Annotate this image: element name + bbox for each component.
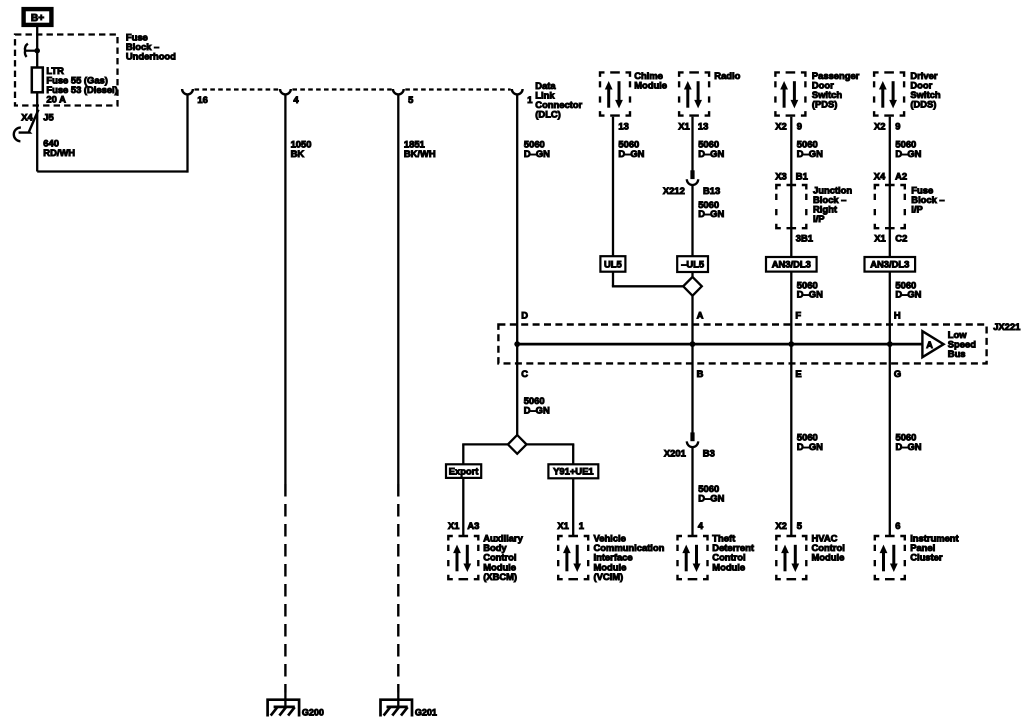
svg-text:H: H — [894, 310, 901, 321]
svg-text:4: 4 — [293, 94, 299, 105]
svg-text:B+: B+ — [31, 13, 44, 24]
svg-text:(PDS): (PDS) — [812, 99, 838, 110]
svg-text:X1: X1 — [557, 520, 568, 531]
option box Export — [446, 464, 481, 478]
module HVAC control module — [776, 536, 806, 579]
node F label — [795, 310, 801, 321]
svg-text:D–GN: D–GN — [698, 208, 724, 219]
wire label 5060 D-GN (DDS) — [895, 139, 921, 159]
svg-text:X1: X1 — [678, 120, 689, 131]
svg-text:(DDS): (DDS) — [910, 99, 936, 110]
svg-text:Underhood: Underhood — [126, 51, 176, 62]
low speed bus line — [517, 343, 922, 346]
bus driver triangle A — [922, 331, 943, 357]
svg-text:5: 5 — [408, 94, 413, 105]
fuse block I/P dashed box — [875, 185, 905, 228]
option box -UL5 — [677, 256, 708, 272]
wire fuse to X4 connector — [36, 92, 38, 171]
data link connector label — [535, 80, 582, 120]
svg-text:D: D — [521, 310, 528, 321]
wire AN3/DL3 right to bus node H — [889, 272, 891, 345]
label HVAC control module — [812, 533, 845, 563]
fuse block underhood label — [126, 31, 176, 61]
module chime module — [600, 72, 630, 115]
label JX221 — [993, 321, 1020, 332]
svg-text:1: 1 — [579, 520, 584, 531]
splice diamond (Export/Y91) — [508, 435, 527, 454]
junction dot node A — [690, 341, 696, 347]
node H label — [894, 310, 901, 321]
module instrument panel cluster — [875, 536, 905, 579]
svg-text:Y91+UE1: Y91+UE1 — [553, 466, 593, 477]
svg-text:(VCIM): (VCIM) — [594, 571, 624, 582]
svg-text:Cluster: Cluster — [910, 552, 943, 563]
wire B+ to fuse — [36, 25, 38, 68]
svg-text:AN3/DL3: AN3/DL3 — [772, 259, 811, 270]
inline connector X212 B13 — [687, 170, 698, 185]
pin label of instrument panel cluster — [895, 520, 900, 531]
label radio — [714, 70, 740, 81]
pin X3 B1 — [775, 171, 807, 182]
svg-text:X4: X4 — [21, 112, 33, 123]
node G label — [894, 368, 901, 379]
svg-text:X2: X2 — [775, 520, 786, 531]
svg-text:G: G — [894, 368, 901, 379]
wire X201 to theft deterrent module — [691, 447, 693, 536]
svg-text:(DLC): (DLC) — [535, 109, 561, 120]
node A label — [697, 310, 704, 321]
svg-text:13: 13 — [698, 120, 708, 131]
svg-text:Module: Module — [634, 80, 667, 91]
wire DDS to fuse block I/P — [889, 117, 891, 257]
svg-text:Export: Export — [449, 466, 479, 477]
svg-text:D–GN: D–GN — [698, 148, 724, 159]
svg-text:B3: B3 — [703, 448, 715, 459]
junction dot node F — [788, 341, 794, 347]
wire X212 to -UL5 — [691, 185, 693, 256]
pin label of theft deterrent control module — [698, 520, 704, 531]
junction dot on B+ feed — [34, 48, 40, 54]
svg-text:Module: Module — [812, 552, 845, 563]
svg-text:JX221: JX221 — [993, 321, 1020, 332]
label driver door switch DDS — [910, 70, 940, 110]
DLC cavity 4 — [280, 89, 299, 105]
svg-text:G201: G201 — [415, 707, 437, 717]
svg-text:1: 1 — [527, 94, 532, 105]
wire label 5060 D-GN (PDS) — [797, 139, 823, 159]
pin X4 A2 — [874, 171, 907, 182]
wire 5060 D-GN from DLC pin 1 — [516, 94, 518, 344]
label chime module — [634, 70, 667, 91]
label theft deterrent control module — [712, 533, 754, 573]
junction block right I/P dashed box — [776, 185, 806, 228]
svg-text:3B1: 3B1 — [796, 233, 813, 244]
svg-text:9: 9 — [895, 120, 900, 131]
svg-text:Radio: Radio — [714, 70, 740, 81]
svg-text:D–GN: D–GN — [698, 493, 724, 504]
svg-text:Bus: Bus — [948, 348, 966, 359]
svg-text:9: 9 — [797, 120, 802, 131]
inline connector X201 B3 — [687, 432, 698, 447]
connector X4 hook — [14, 128, 21, 142]
node C label — [521, 368, 528, 379]
label vehicle communication interface module VCIM — [594, 533, 665, 582]
wire label 1050 BK — [291, 139, 312, 159]
wire Y91 to VCIM — [572, 478, 574, 536]
wire label 5060 D-GN (F) — [797, 279, 823, 299]
connector id AN3/DL3 (right) — [865, 257, 916, 272]
wire bus node C down to splice — [516, 344, 518, 435]
wire label 5060 D-GN (radio upper) — [698, 139, 724, 159]
fuse LTR Fuse 55/53 20A — [32, 68, 43, 93]
svg-text:I/P: I/P — [813, 213, 824, 224]
svg-text:X1: X1 — [874, 233, 885, 244]
node E label — [795, 368, 801, 379]
wire label 1851 BK/WH — [404, 139, 436, 159]
svg-text:D–GN: D–GN — [895, 289, 921, 300]
svg-text:UL5: UL5 — [604, 258, 622, 269]
module driver door switch DDS — [874, 72, 904, 115]
wire splice to Export — [462, 444, 508, 464]
wire label 5060 D-GN (E) — [797, 432, 823, 452]
module radio — [679, 72, 709, 115]
pin label X201 B3 — [664, 448, 715, 459]
fuse block underhood dashed enclosure — [15, 35, 118, 106]
wire -UL5 to splice diamond — [691, 272, 693, 278]
pin 9 of passenger door switch PDS — [775, 120, 802, 131]
label fuse block I/P — [911, 184, 944, 214]
pin 3B1 — [796, 233, 813, 244]
wire PDS to junction block — [790, 117, 792, 257]
wire label 5060 D-GN (C) — [524, 395, 550, 415]
svg-text:X3: X3 — [775, 171, 786, 182]
svg-text:D–GN: D–GN — [797, 289, 823, 300]
connector X4 slash — [19, 110, 39, 133]
option box Y91+UE1 — [548, 464, 598, 478]
svg-text:A: A — [926, 340, 933, 350]
module vehicle communication interface module VCIM — [558, 536, 588, 579]
svg-text:J5: J5 — [43, 112, 53, 123]
DLC cavity 1 — [512, 89, 533, 105]
svg-text:X4: X4 — [874, 171, 886, 182]
wire label 5060 D-GN (G) — [896, 432, 922, 452]
svg-text:X201: X201 — [664, 448, 686, 459]
svg-text:4: 4 — [698, 520, 704, 531]
battery feed B+ terminal — [24, 9, 52, 25]
option box UL5 — [600, 256, 625, 272]
svg-text:D–GN: D–GN — [797, 441, 823, 452]
label instrument panel cluster — [910, 533, 958, 563]
svg-text:(XBCM): (XBCM) — [483, 571, 517, 582]
ground G201 — [381, 700, 437, 718]
wire to DLC pin 16 — [37, 94, 187, 172]
pin X4 / J5 label — [21, 112, 54, 123]
wire chime module to UL5 — [612, 117, 614, 257]
pin X1 C2 — [874, 233, 907, 244]
svg-text:D–GN: D–GN — [618, 148, 644, 159]
wire AN3/DL3 left to bus node F — [790, 272, 792, 345]
svg-text:BK/WH: BK/WH — [404, 148, 436, 159]
wire label 5060 D-GN (radio lower) — [698, 199, 724, 219]
fuse value label — [46, 65, 117, 105]
svg-text:C: C — [521, 368, 528, 379]
svg-text:D–GN: D–GN — [797, 148, 823, 159]
module auxiliary body control module XBCM — [448, 536, 478, 579]
svg-text:D–GN: D–GN — [524, 404, 550, 415]
node B label — [697, 368, 704, 379]
junction dot node H — [887, 341, 893, 347]
pin label X212 B13 — [663, 185, 720, 196]
wire label 5060 D-GN (B) — [698, 483, 724, 503]
pin 13 of radio — [678, 120, 708, 131]
wire label 5060 D-GN (chime) — [618, 139, 644, 159]
svg-text:A: A — [697, 310, 704, 321]
svg-text:B13: B13 — [703, 185, 720, 196]
wire bus node E to HVAC — [790, 344, 792, 536]
ground G200 — [268, 700, 324, 718]
connector id AN3/DL3 (left) — [766, 257, 817, 272]
wire label 640 RD/WH — [43, 137, 75, 158]
svg-text:Module: Module — [712, 561, 745, 572]
svg-text:16: 16 — [197, 94, 207, 105]
svg-text:BK: BK — [291, 148, 305, 159]
svg-text:13: 13 — [618, 120, 628, 131]
wire label 5060 D-GN (H) — [895, 279, 921, 299]
label passenger door switch PDS — [812, 70, 860, 110]
wire label 5060 D-GN (DLC) — [524, 139, 550, 159]
svg-text:E: E — [795, 368, 801, 379]
svg-text:X2: X2 — [775, 120, 786, 131]
DLC cavity 16 — [182, 89, 208, 105]
pin 13 of chime module — [618, 120, 628, 131]
label auxiliary body control module XBCM — [483, 533, 523, 582]
svg-text:G200: G200 — [302, 707, 324, 717]
svg-text:A2: A2 — [895, 171, 907, 182]
pin 9 of driver door switch DDS — [874, 120, 901, 131]
svg-text:B: B — [697, 368, 704, 379]
wire UL5 to splice diamond — [612, 272, 684, 287]
pin label of HVAC control module — [775, 520, 802, 531]
module theft deterrent control module — [678, 536, 708, 579]
svg-text:D–GN: D–GN — [895, 148, 921, 159]
wire 1851 BK/WH — [397, 94, 399, 707]
module passenger door switch PDS — [775, 72, 805, 115]
wire radio to connector X212 — [691, 117, 693, 171]
junction dot node D — [514, 341, 520, 347]
wire bus node G to instrument panel cluster — [889, 344, 891, 536]
svg-text:6: 6 — [895, 520, 900, 531]
svg-text:F: F — [795, 310, 801, 321]
svg-text:AN3/DL3: AN3/DL3 — [870, 259, 909, 270]
connector hook at fuse block feed — [25, 44, 36, 57]
wire splice to Y91+UE1 — [527, 444, 575, 464]
svg-text:C2: C2 — [895, 233, 907, 244]
svg-text:D–GN: D–GN — [896, 441, 922, 452]
splice diamond (UL5/-UL5) — [683, 277, 702, 296]
data link connector dashed line — [195, 88, 511, 90]
wire splice to bus node A — [691, 295, 693, 344]
svg-text:5: 5 — [797, 520, 802, 531]
svg-text:–UL5: –UL5 — [681, 259, 704, 270]
node D label — [521, 310, 528, 321]
svg-text:20 A: 20 A — [46, 94, 66, 105]
pin label of vehicle communication interface module VCIM — [557, 520, 584, 531]
low speed bus dashed enclosure JX221 — [498, 325, 986, 364]
svg-text:I/P: I/P — [911, 204, 922, 215]
svg-text:A3: A3 — [467, 520, 479, 531]
svg-text:D–GN: D–GN — [524, 148, 550, 159]
DLC cavity 5 — [393, 89, 413, 105]
wire 1050 BK — [284, 94, 286, 707]
svg-text:X2: X2 — [874, 120, 885, 131]
svg-text:X212: X212 — [663, 185, 685, 196]
label low speed bus — [948, 329, 976, 359]
pin label of auxiliary body control module XBCM — [448, 520, 479, 531]
wire bus node B to X201 — [691, 344, 693, 433]
label junction block right I/P — [813, 184, 852, 224]
svg-text:X1: X1 — [448, 520, 459, 531]
wire Export to XBCM — [462, 478, 464, 536]
svg-text:B1: B1 — [796, 171, 808, 182]
svg-text:RD/WH: RD/WH — [43, 147, 75, 158]
